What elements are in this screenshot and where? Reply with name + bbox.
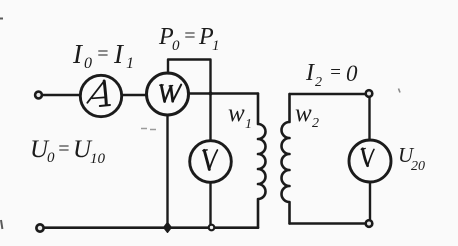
wire node to voltmeter V1 (209, 94, 211, 141)
secondary top wire (290, 93, 366, 95)
svg-text:2: 2 (315, 75, 322, 90)
label U20 (398, 143, 425, 174)
meter letter A (87, 81, 110, 106)
bottom rail wire (45, 226, 259, 229)
junction voltmeter V1/bottom rail (209, 225, 215, 231)
terminal left-top (35, 92, 42, 99)
svg-text:=: = (96, 43, 110, 65)
svg-text:=: = (57, 138, 71, 160)
terminal left-bottom (36, 224, 43, 231)
svg-text:20: 20 (411, 159, 425, 174)
label U0 = U10 (30, 136, 106, 167)
label w1 (228, 100, 252, 132)
wire voltmeter V1 to bottom rail (209, 182, 211, 227)
svg-text:=: = (183, 25, 197, 47)
wattmeter W1 (147, 73, 189, 115)
label I2 = 0 (305, 60, 358, 90)
svg-text:I: I (305, 60, 315, 86)
label I0 = I1 (72, 39, 134, 72)
wire voltmeter V2 to bottom terminal (369, 182, 371, 220)
wattmeter voltage-coil loop (168, 60, 211, 94)
svg-text:0: 0 (172, 38, 180, 54)
label w2 (295, 100, 319, 131)
terminal right-bottom (366, 220, 373, 227)
svg-text:1: 1 (245, 117, 252, 132)
scan artifact dashes (141, 129, 156, 130)
svg-text:1: 1 (126, 55, 134, 72)
wire wattmeter to winding w1 (189, 92, 258, 94)
meter letter V (V1) (203, 150, 218, 170)
svg-text:0: 0 (346, 61, 358, 86)
ammeter A1 (80, 75, 121, 116)
svg-text:=: = (329, 62, 342, 83)
svg-text:0: 0 (84, 55, 92, 72)
svg-text:10: 10 (90, 151, 106, 167)
voltmeter V2 (349, 140, 391, 182)
terminal right-top (366, 90, 373, 97)
meter letter V (V2) (361, 149, 374, 166)
scan speck right of terminal (399, 89, 401, 93)
junction wattmeter loop / main wire (209, 92, 213, 96)
secondary winding w2 (282, 94, 290, 224)
wire ammeter to wattmeter (122, 94, 147, 96)
voltmeter V1 (190, 141, 232, 183)
scan artifact left edge marks (0, 19, 3, 230)
wire wattmeter bottom to bottom rail (166, 115, 168, 228)
label P0 = P1 (158, 24, 220, 54)
secondary bottom wire (290, 222, 366, 224)
svg-text:0: 0 (47, 150, 55, 166)
svg-text:w: w (228, 100, 245, 127)
wire terminal to voltmeter V2 (368, 97, 370, 140)
svg-text:1: 1 (212, 38, 220, 54)
meter letter W (160, 85, 182, 102)
primary winding w1 (258, 94, 266, 228)
wire terminal to ammeter (43, 94, 81, 96)
svg-text:2: 2 (312, 116, 319, 131)
junction wattmeter/bottom rail (164, 223, 172, 233)
svg-text:w: w (295, 100, 312, 127)
